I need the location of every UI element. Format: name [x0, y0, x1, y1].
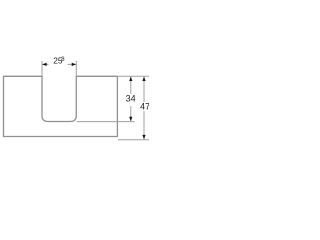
arrowhead 25.8 left: [42, 63, 46, 66]
dimension line 25.8 right segment: [68, 63, 76, 65]
dimension line 25.8 left segment: [42, 63, 48, 65]
countertop outline with U-shaped cutout: [4, 76, 118, 136]
dimension line 47: [143, 77, 145, 102]
extension bar right of 25.8: [75, 61, 77, 76]
arrowhead 34 up: [129, 77, 132, 81]
arrowhead 25.8 right: [72, 63, 76, 66]
arrowhead 47 down: [142, 135, 145, 139]
extension line cutout depth (34): [77, 121, 135, 123]
svg-text:47: 47: [140, 102, 149, 112]
svg-text:34: 34: [126, 94, 136, 104]
arrowhead 47 up: [142, 77, 145, 81]
extension line top right: [118, 75, 149, 77]
extension line total depth (47): [118, 139, 149, 141]
arrowhead 34 down: [129, 117, 132, 121]
dimension line 34: [130, 77, 132, 94]
extension bar left of 25.8: [41, 61, 43, 76]
